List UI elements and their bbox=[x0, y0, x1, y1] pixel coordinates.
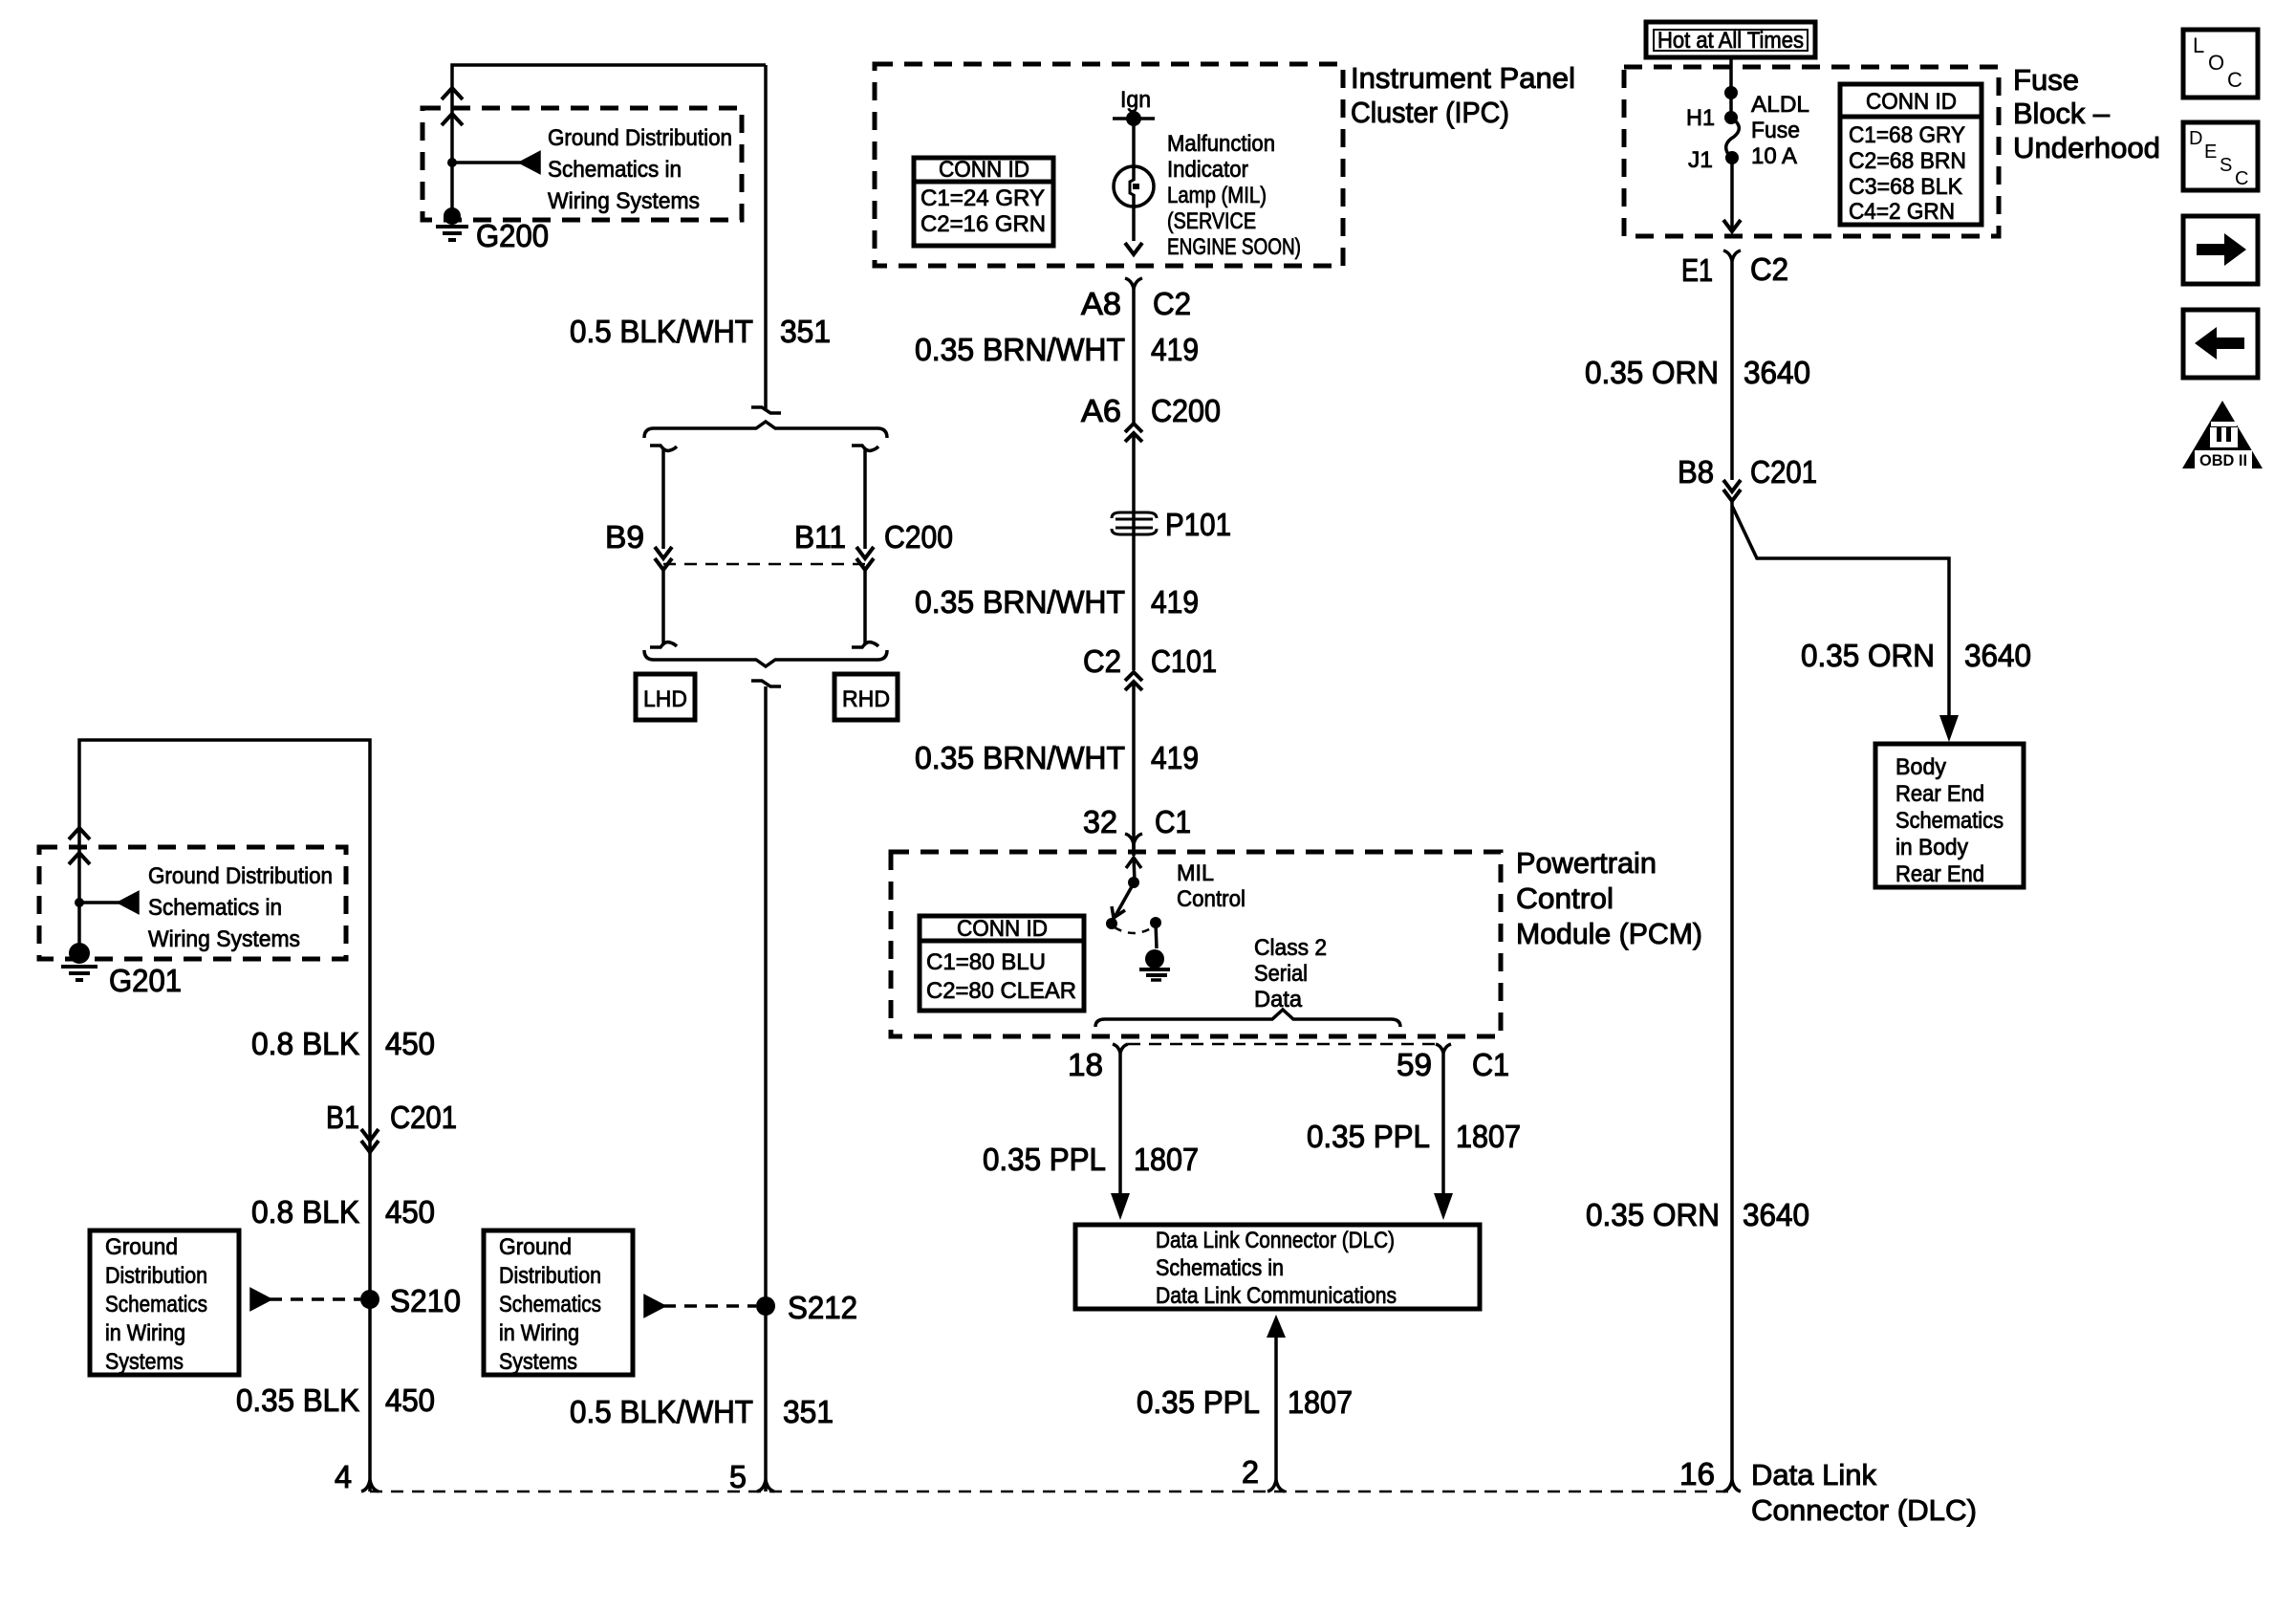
pin 2 Y junction flare bbox=[1267, 1480, 1285, 1491]
svg-text:419: 419 bbox=[1151, 584, 1199, 620]
svg-text:450: 450 bbox=[385, 1382, 435, 1418]
svg-text:Schematics in: Schematics in bbox=[548, 157, 682, 183]
svg-text:Schematics in: Schematics in bbox=[148, 895, 282, 921]
margin icon: LOC box bbox=[2183, 30, 2258, 98]
thin dashed link between pins 18 and 59 bbox=[1128, 1043, 1436, 1046]
wire: 351 wire upper segment bbox=[764, 65, 768, 409]
connector C201 double chevron on 450 wire bbox=[361, 1129, 379, 1141]
svg-text:B1: B1 bbox=[326, 1099, 359, 1135]
svg-text:Wiring Systems: Wiring Systems bbox=[548, 188, 700, 214]
arrow into DLC reference box (right) bbox=[1434, 1193, 1453, 1220]
svg-text:CONN ID: CONN ID bbox=[1866, 89, 1957, 115]
svg-text:CONN ID: CONN ID bbox=[957, 916, 1048, 942]
wire from Ign to MIL lamp bbox=[1132, 119, 1136, 181]
svg-text:450: 450 bbox=[385, 1026, 435, 1061]
wire branch: 3640 to body rear end bbox=[1732, 506, 1949, 719]
svg-text:Ground Distribution: Ground Distribution bbox=[548, 125, 732, 151]
svg-text:A8: A8 bbox=[1081, 286, 1121, 321]
ground distribution reference box (G200) bbox=[422, 108, 742, 220]
svg-text:in Wiring: in Wiring bbox=[105, 1320, 185, 1346]
svg-text:0.35 BRN/WHT: 0.35 BRN/WHT bbox=[915, 584, 1125, 620]
wire: 419 middle segment bbox=[1132, 433, 1136, 670]
connector C200 double chevron on 419 wire bbox=[1125, 424, 1142, 432]
component box: Fuse Block - Underhood (dashed) bbox=[1624, 67, 1999, 236]
svg-text:0.35 ORN: 0.35 ORN bbox=[1585, 355, 1719, 390]
pin 59 Y junction bbox=[1436, 1044, 1451, 1053]
DLC bus dashed line bbox=[370, 1491, 1733, 1493]
wire: 1807 from DLC pin 2 bbox=[1274, 1336, 1278, 1481]
svg-text:0.8 BLK: 0.8 BLK bbox=[251, 1194, 359, 1230]
pin 4 Y junction flare bbox=[361, 1480, 379, 1491]
ground distribution reference box (G201) bbox=[39, 847, 346, 959]
svg-text:Schematics: Schematics bbox=[499, 1292, 601, 1317]
arrow up into DLC box from pin 2 bbox=[1267, 1315, 1286, 1338]
splice S212 dot bbox=[756, 1296, 775, 1316]
lamp MIL (circle) bbox=[1114, 166, 1154, 207]
C200 connector top brace bbox=[644, 422, 887, 438]
svg-text:C1=24 GRY: C1=24 GRY bbox=[921, 185, 1045, 211]
svg-text:Module (PCM): Module (PCM) bbox=[1516, 917, 1702, 950]
svg-text:RHD: RHD bbox=[842, 686, 890, 712]
wire: 419 upper segment bbox=[1132, 289, 1136, 424]
svg-text:C4=2 GRN: C4=2 GRN bbox=[1849, 199, 1955, 225]
svg-text:E1: E1 bbox=[1681, 252, 1713, 288]
svg-text:Schematics: Schematics bbox=[105, 1292, 207, 1317]
svg-text:Systems: Systems bbox=[499, 1349, 577, 1375]
CONN ID table (Fuse Block) bbox=[1840, 84, 1982, 225]
Ign feed tick and junction dot bbox=[1113, 117, 1155, 120]
svg-text:1807: 1807 bbox=[1288, 1384, 1353, 1420]
svg-text:Fuse: Fuse bbox=[1751, 118, 1800, 143]
svg-text:B11: B11 bbox=[794, 519, 846, 555]
svg-text:2: 2 bbox=[1242, 1454, 1259, 1490]
svg-text:ALDL: ALDL bbox=[1751, 92, 1809, 118]
svg-text:Underhood: Underhood bbox=[2013, 131, 2160, 164]
svg-text:0.35 PPL: 0.35 PPL bbox=[1307, 1119, 1430, 1154]
svg-text:C2: C2 bbox=[1083, 643, 1121, 679]
pointer line and triangle in G201 box bbox=[75, 893, 138, 912]
svg-text:CONN ID: CONN ID bbox=[939, 157, 1029, 183]
svg-text:Hot at All Times: Hot at All Times bbox=[1657, 28, 1804, 54]
svg-text:Control: Control bbox=[1177, 886, 1245, 912]
svg-text:Ground Distribution: Ground Distribution bbox=[148, 863, 333, 889]
wire: 351 wire lower segment to DLC pin 5 bbox=[764, 686, 768, 1491]
svg-text:C1=80 BLU: C1=80 BLU bbox=[926, 949, 1046, 975]
margin icon: OBD II triangle bbox=[2182, 401, 2263, 468]
svg-text:D: D bbox=[2189, 128, 2202, 149]
body rear end reference box bbox=[1875, 744, 2024, 887]
svg-text:C1=68 GRY: C1=68 GRY bbox=[1849, 122, 1965, 148]
C200 LHD column (B9) bbox=[650, 446, 677, 647]
svg-text:C2: C2 bbox=[1750, 251, 1788, 287]
svg-text:351: 351 bbox=[783, 1394, 834, 1429]
margin icon: forward arrow box bbox=[2183, 216, 2258, 284]
C200 connector bottom brace bbox=[644, 650, 887, 666]
svg-text:Indicator: Indicator bbox=[1167, 157, 1248, 183]
svg-text:B8: B8 bbox=[1678, 454, 1714, 490]
svg-text:C200: C200 bbox=[1151, 393, 1221, 428]
splice S210 dot bbox=[360, 1290, 379, 1309]
svg-text:5: 5 bbox=[729, 1459, 747, 1494]
svg-text:C2=80 CLEAR: C2=80 CLEAR bbox=[926, 978, 1076, 1004]
arrowhead at fuse block exit bbox=[1723, 220, 1741, 231]
svg-text:450: 450 bbox=[385, 1194, 435, 1230]
svg-text:16: 16 bbox=[1679, 1456, 1715, 1491]
svg-text:Rear End: Rear End bbox=[1895, 781, 1984, 807]
svg-text:Instrument Panel: Instrument Panel bbox=[1351, 61, 1575, 95]
svg-text:Systems: Systems bbox=[105, 1349, 184, 1375]
wire: 419 lower segment bbox=[1132, 682, 1136, 849]
margin icon: DESC box bbox=[2183, 122, 2258, 190]
svg-text:C: C bbox=[2235, 168, 2248, 189]
svg-text:3640: 3640 bbox=[1744, 355, 1810, 390]
C200 RHD column (B11) bbox=[852, 446, 878, 647]
MIL driver: dashed throw arc bbox=[1115, 927, 1153, 933]
wire: 3640 lower segment to DLC pin 16 bbox=[1730, 501, 1734, 1481]
margin icon: back arrow box bbox=[2183, 310, 2258, 378]
ground symbol inside PCM bbox=[1139, 949, 1170, 980]
svg-text:Body: Body bbox=[1895, 754, 1946, 780]
svg-text:419: 419 bbox=[1151, 740, 1199, 775]
wire: G200 ground feed, horizontal run to 351 wire bbox=[452, 65, 766, 216]
connector chevron above G200 box bbox=[442, 88, 463, 99]
brace for Class 2 Serial Data pins bbox=[1095, 1010, 1400, 1027]
svg-text:0.35 BRN/WHT: 0.35 BRN/WHT bbox=[915, 332, 1125, 367]
pointer line and triangle in G200 box bbox=[447, 153, 539, 172]
svg-text:1807: 1807 bbox=[1134, 1142, 1199, 1177]
svg-text:351: 351 bbox=[780, 314, 831, 349]
pin 16 Y junction flare bbox=[1723, 1480, 1741, 1491]
RHD box bbox=[834, 674, 898, 720]
wire: 1807 from pin 59 bbox=[1441, 1053, 1445, 1200]
dashed pointer to S210 with triangle bbox=[251, 1290, 360, 1309]
pin 18 Y junction bbox=[1113, 1044, 1128, 1053]
svg-text:32: 32 bbox=[1083, 804, 1117, 839]
svg-text:Rear End: Rear End bbox=[1895, 861, 1984, 887]
svg-text:0.35 PPL: 0.35 PPL bbox=[1137, 1384, 1260, 1420]
svg-text:Serial: Serial bbox=[1254, 961, 1308, 987]
svg-text:0.35 BRN/WHT: 0.35 BRN/WHT bbox=[915, 740, 1125, 775]
svg-text:Block –: Block – bbox=[2013, 97, 2111, 130]
wire: 1807 from pin 18 bbox=[1118, 1053, 1122, 1200]
svg-text:3640: 3640 bbox=[1743, 1197, 1809, 1232]
wire: G201 ground feed corner to 450 wire bbox=[79, 740, 370, 1491]
svg-text:Wiring Systems: Wiring Systems bbox=[148, 926, 300, 952]
wire break tilde on 351 wire above C200 bbox=[751, 407, 781, 413]
svg-text:G201: G201 bbox=[109, 963, 182, 998]
svg-text:0.5 BLK/WHT: 0.5 BLK/WHT bbox=[570, 1394, 753, 1429]
svg-text:Ign: Ign bbox=[1120, 87, 1151, 113]
svg-text:Schematics in: Schematics in bbox=[1156, 1255, 1284, 1281]
svg-text:Lamp (MIL): Lamp (MIL) bbox=[1167, 183, 1267, 208]
svg-text:18: 18 bbox=[1068, 1047, 1103, 1082]
svg-text:S: S bbox=[2220, 155, 2232, 176]
component box: Powertrain Control Module (dashed) bbox=[891, 852, 1501, 1036]
svg-text:Powertrain: Powertrain bbox=[1516, 846, 1657, 880]
svg-text:(SERVICE: (SERVICE bbox=[1167, 208, 1256, 234]
svg-text:C2=68 BRN: C2=68 BRN bbox=[1849, 148, 1966, 174]
svg-text:Ground: Ground bbox=[499, 1234, 572, 1260]
svg-text:Data Link Communications: Data Link Communications bbox=[1156, 1283, 1397, 1309]
connector Y below IPC (A8/C2) bbox=[1125, 278, 1142, 289]
svg-text:Schematics: Schematics bbox=[1895, 808, 2004, 834]
svg-text:0.35 ORN: 0.35 ORN bbox=[1801, 638, 1935, 673]
svg-text:MIL: MIL bbox=[1177, 860, 1214, 886]
svg-text:in Body: in Body bbox=[1895, 835, 1968, 860]
svg-text:Control: Control bbox=[1516, 882, 1614, 915]
pin 5 Y junction flare bbox=[757, 1480, 774, 1491]
svg-text:Ground: Ground bbox=[105, 1234, 178, 1260]
svg-text:4: 4 bbox=[335, 1459, 352, 1494]
connector chevron inside G201 box bbox=[69, 853, 90, 864]
svg-text:S212: S212 bbox=[788, 1290, 857, 1325]
svg-text:C201: C201 bbox=[1750, 454, 1817, 490]
svg-text:Data Link: Data Link bbox=[1751, 1458, 1876, 1491]
svg-text:0.35 ORN: 0.35 ORN bbox=[1586, 1197, 1720, 1232]
svg-text:0.35 PPL: 0.35 PPL bbox=[983, 1142, 1106, 1177]
svg-text:Distribution: Distribution bbox=[105, 1263, 207, 1289]
svg-text:Cluster (IPC): Cluster (IPC) bbox=[1351, 96, 1509, 129]
MIL driver: fixed contact with up arrow bbox=[1126, 858, 1141, 868]
ground G200 symbol bbox=[436, 207, 468, 240]
LHD box bbox=[636, 674, 695, 720]
svg-text:0.5 BLK/WHT: 0.5 BLK/WHT bbox=[570, 314, 753, 349]
svg-text:Data: Data bbox=[1254, 987, 1303, 1012]
svg-text:10 A: 10 A bbox=[1751, 143, 1797, 169]
svg-text:C201: C201 bbox=[390, 1099, 457, 1135]
svg-text:C3=68 BLK: C3=68 BLK bbox=[1849, 174, 1962, 200]
connector C201 arrow + chevron on 3640 wire bbox=[1723, 480, 1741, 491]
svg-text:Data Link Connector (DLC): Data Link Connector (DLC) bbox=[1156, 1228, 1395, 1253]
DLC schematics reference box bbox=[1075, 1225, 1480, 1309]
svg-text:C200: C200 bbox=[884, 519, 953, 555]
ground distribution reference box near S210 bbox=[90, 1230, 239, 1375]
svg-text:G200: G200 bbox=[476, 218, 549, 253]
arrow into DLC reference box (left) bbox=[1111, 1193, 1130, 1220]
pass-through grommet P101 bbox=[1112, 512, 1157, 534]
arrowhead at IPC exit bbox=[1125, 243, 1142, 254]
svg-text:Distribution: Distribution bbox=[499, 1263, 601, 1289]
svg-text:in Wiring: in Wiring bbox=[499, 1320, 579, 1346]
connector chevron above G201 box bbox=[69, 828, 90, 839]
svg-text:E: E bbox=[2204, 142, 2217, 163]
power tag: Hot at All Times bbox=[1646, 22, 1815, 57]
ground distribution reference box near S212 bbox=[484, 1230, 633, 1375]
svg-text:P101: P101 bbox=[1165, 507, 1231, 542]
svg-text:C2=16 GRN: C2=16 GRN bbox=[921, 211, 1046, 237]
svg-text:O: O bbox=[2208, 51, 2224, 75]
svg-text:0.35 BLK: 0.35 BLK bbox=[236, 1382, 359, 1418]
svg-text:419: 419 bbox=[1151, 332, 1199, 367]
wire break tilde below C200 bbox=[751, 681, 781, 686]
connector Y into PCM (pin 32) bbox=[1125, 834, 1142, 844]
svg-text:0.8 BLK: 0.8 BLK bbox=[251, 1026, 359, 1061]
CONN ID table (PCM) bbox=[920, 916, 1084, 1011]
dashed mate line between B9 and B11 bbox=[663, 563, 865, 566]
svg-text:Fuse: Fuse bbox=[2013, 63, 2079, 97]
MIL driver: switch lever with arrowhead bbox=[1113, 882, 1135, 921]
ground G201 symbol bbox=[61, 943, 97, 980]
svg-text:ENGINE SOON): ENGINE SOON) bbox=[1167, 234, 1301, 260]
svg-text:C1: C1 bbox=[1155, 804, 1191, 839]
MIL driver: closed contact bbox=[1150, 917, 1161, 928]
svg-text:A6: A6 bbox=[1081, 393, 1121, 428]
svg-text:LHD: LHD bbox=[643, 686, 687, 712]
svg-text:C101: C101 bbox=[1151, 643, 1217, 679]
svg-text:1807: 1807 bbox=[1456, 1119, 1521, 1154]
svg-text:59: 59 bbox=[1397, 1047, 1432, 1082]
svg-text:C1: C1 bbox=[1472, 1047, 1509, 1082]
svg-text:C: C bbox=[2227, 68, 2242, 92]
svg-text:Malfunction: Malfunction bbox=[1167, 131, 1275, 157]
svg-text:B9: B9 bbox=[605, 519, 644, 555]
svg-text:S210: S210 bbox=[390, 1283, 461, 1318]
wire into fuse bbox=[1729, 59, 1733, 118]
wire: 3640 upper segment bbox=[1730, 261, 1734, 480]
arrow into body rear end box bbox=[1939, 715, 1959, 742]
svg-text:C2: C2 bbox=[1153, 286, 1191, 321]
connector Y below fuse block (E1/C2) bbox=[1723, 250, 1741, 261]
svg-text:3640: 3640 bbox=[1964, 638, 2031, 673]
connector C101 double chevron on 419 wire bbox=[1125, 672, 1142, 681]
svg-text:Connector (DLC): Connector (DLC) bbox=[1751, 1493, 1977, 1527]
dashed pointer to S212 with triangle bbox=[645, 1296, 756, 1316]
svg-text:Class 2: Class 2 bbox=[1254, 935, 1327, 961]
component box: Instrument Panel Cluster (dashed) bbox=[875, 64, 1343, 266]
fuse ALDL 10A (S-curve element) bbox=[1724, 111, 1738, 124]
svg-text:OBD II: OBD II bbox=[2199, 451, 2247, 469]
svg-text:L: L bbox=[2193, 33, 2204, 57]
CONN ID table (IPC) bbox=[914, 158, 1053, 246]
svg-text:J1: J1 bbox=[1688, 147, 1713, 173]
connector chevron inside G200 box bbox=[442, 114, 463, 125]
wire from fuse to box edge bbox=[1730, 158, 1734, 231]
svg-text:H1: H1 bbox=[1686, 105, 1715, 131]
